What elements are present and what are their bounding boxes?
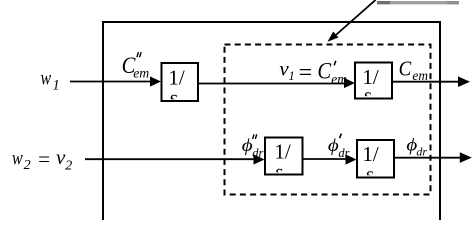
svg-text:em: em [331, 71, 347, 86]
svg-text:2: 2 [65, 159, 72, 174]
svg-text:1: 1 [53, 78, 60, 94]
integrator box U3 (1/s) [265, 138, 303, 184]
node label v1 = C'_em [279, 57, 347, 87]
outer solid system box [103, 22, 440, 220]
wire: U3 output to U4 [303, 154, 357, 164]
svg-text:em: em [133, 65, 149, 80]
node label phi''_dr [242, 134, 264, 160]
node label w2 = v2 [12, 145, 72, 173]
integrator box U2 (1/s) [355, 63, 392, 108]
annotation arrow from cropped label into dashed box [328, 0, 376, 42]
wire: w1 input to integrator box U1 [70, 76, 161, 86]
svg-text:s: s [366, 162, 374, 186]
dashed subsystem box [225, 45, 431, 195]
svg-text:dr: dr [252, 146, 263, 160]
node label C_em (output) [399, 58, 429, 83]
svg-text:s: s [170, 85, 179, 110]
svg-text:dr: dr [338, 146, 349, 160]
svg-text:s: s [364, 83, 372, 107]
wire: w2 input to integrator box U3 [85, 154, 265, 164]
svg-text:1: 1 [289, 69, 295, 83]
node label phi'_dr [328, 134, 350, 160]
svg-text:ϕ: ϕ [328, 135, 339, 155]
svg-text:em: em [412, 68, 428, 83]
svg-text:=: = [297, 60, 313, 86]
svg-text:2: 2 [24, 158, 31, 173]
cropped gray bar (top right) [377, 1, 459, 4]
svg-text:ϕ: ϕ [242, 135, 253, 155]
node label phi_drv (output) [406, 135, 427, 159]
wire: U2 output C_em to right edge [392, 76, 470, 87]
wire: U4 output phi_drv to right edge [394, 152, 472, 163]
wire: U1 output to U2 [198, 78, 355, 88]
node label w1 [41, 67, 60, 94]
svg-text:w: w [12, 147, 23, 169]
svg-text:s: s [275, 159, 283, 183]
svg-text:dr: dr [416, 144, 427, 158]
svg-text:=: = [37, 147, 51, 171]
svg-text:C: C [317, 57, 331, 84]
svg-text:C: C [399, 58, 412, 81]
svg-text:w: w [41, 67, 52, 89]
node label C''_em [122, 52, 150, 81]
integrator box U4 (1/s) [357, 140, 394, 186]
integrator box U1 (1/s) [162, 63, 199, 110]
